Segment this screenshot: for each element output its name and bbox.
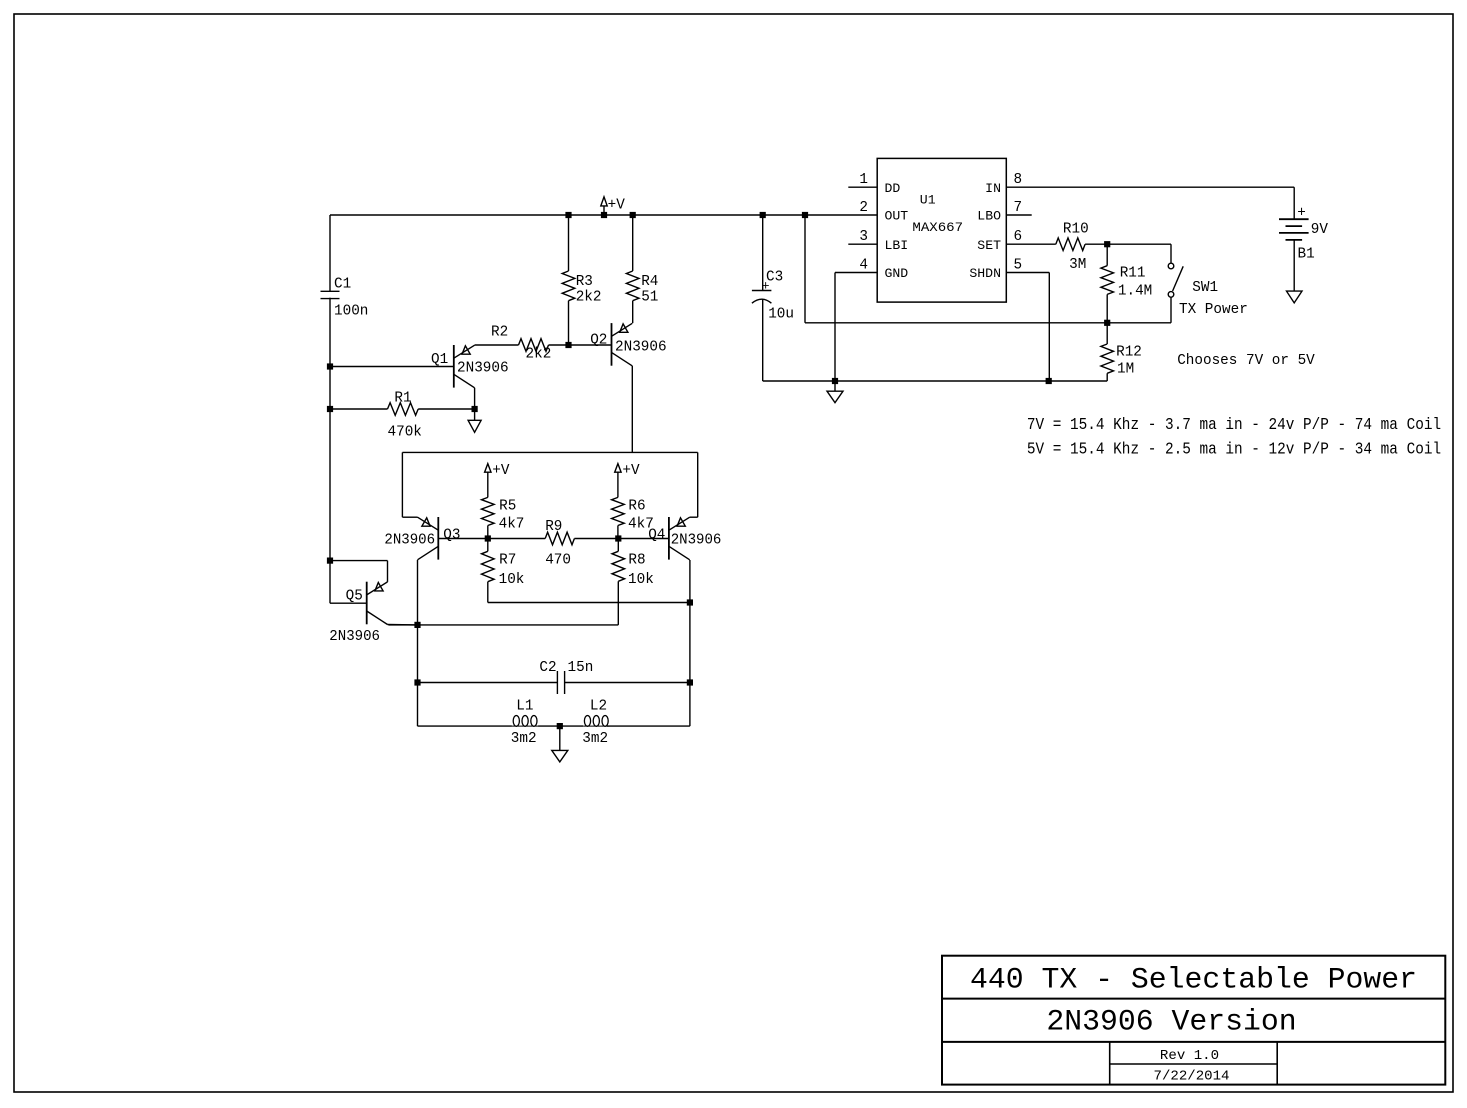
svg-text:Rev 1.0: Rev 1.0: [1160, 1049, 1219, 1064]
svg-text:2: 2: [859, 199, 868, 216]
svg-text:2N3906 Version: 2N3906 Version: [1046, 1005, 1296, 1039]
svg-text:Q2: Q2: [590, 331, 607, 348]
svg-text:+: +: [762, 278, 770, 293]
svg-text:5V = 15.4 Khz - 2.5 ma in - 12: 5V = 15.4 Khz - 2.5 ma in - 12v P/P - 34…: [1027, 440, 1441, 459]
svg-text:3m2: 3m2: [582, 730, 608, 747]
svg-text:DD: DD: [885, 181, 901, 196]
svg-text:2k2: 2k2: [576, 289, 602, 306]
svg-text:2N3906: 2N3906: [671, 532, 722, 549]
svg-text:R12: R12: [1116, 344, 1142, 361]
svg-text:C1: C1: [334, 276, 351, 293]
svg-text:1: 1: [859, 171, 868, 188]
svg-text:+V: +V: [622, 462, 639, 479]
svg-text:5: 5: [1014, 256, 1023, 273]
svg-text:4: 4: [859, 256, 868, 273]
svg-text:3M: 3M: [1069, 256, 1086, 273]
svg-text:7/22/2014: 7/22/2014: [1154, 1070, 1230, 1085]
svg-text:R2: R2: [491, 323, 508, 340]
svg-text:LBO: LBO: [977, 209, 1001, 224]
svg-text:B1: B1: [1298, 246, 1315, 263]
svg-text:IN: IN: [985, 181, 1001, 196]
svg-text:R11: R11: [1120, 265, 1146, 282]
svg-text:10k: 10k: [499, 571, 525, 588]
svg-text:R5: R5: [499, 498, 516, 515]
svg-text:R9: R9: [545, 518, 562, 535]
svg-text:R10: R10: [1063, 220, 1089, 237]
svg-text:440 TX - Selectable Power: 440 TX - Selectable Power: [970, 963, 1417, 997]
svg-text:LBI: LBI: [885, 238, 909, 253]
svg-text:470: 470: [545, 552, 571, 569]
svg-text:+: +: [1297, 205, 1306, 222]
svg-text:SHDN: SHDN: [969, 266, 1001, 281]
svg-text:3: 3: [859, 228, 868, 245]
svg-text:GND: GND: [885, 266, 909, 281]
svg-text:+V: +V: [608, 197, 625, 214]
svg-text:C2: C2: [539, 659, 556, 676]
svg-text:TX Power: TX Power: [1179, 301, 1248, 318]
svg-text:U1: U1: [920, 192, 936, 207]
svg-text:MAX667: MAX667: [912, 220, 963, 235]
svg-text:Q3: Q3: [443, 526, 460, 543]
svg-text:2N3906: 2N3906: [457, 360, 509, 377]
svg-text:L2: L2: [590, 698, 607, 715]
svg-text:51: 51: [641, 289, 658, 306]
svg-text:R8: R8: [628, 552, 645, 569]
svg-text:R1: R1: [394, 390, 411, 407]
svg-text:Q5: Q5: [346, 588, 363, 605]
svg-text:Q1: Q1: [431, 351, 448, 368]
svg-text:SET: SET: [977, 238, 1001, 253]
svg-text:2k2: 2k2: [526, 345, 552, 362]
svg-text:100n: 100n: [334, 303, 368, 320]
svg-text:SW1: SW1: [1192, 279, 1218, 296]
svg-text:9V: 9V: [1311, 221, 1328, 238]
svg-text:L1: L1: [516, 698, 533, 715]
svg-text:470k: 470k: [388, 424, 422, 441]
svg-text:1.4M: 1.4M: [1118, 282, 1152, 299]
svg-text:OUT: OUT: [885, 209, 909, 224]
svg-text:2N3906: 2N3906: [329, 628, 380, 645]
svg-text:3m2: 3m2: [511, 730, 537, 747]
svg-text:+V: +V: [492, 462, 509, 479]
svg-text:10k: 10k: [628, 571, 654, 588]
svg-text:15n: 15n: [568, 659, 594, 676]
svg-text:2N3906: 2N3906: [384, 532, 435, 549]
svg-text:R6: R6: [628, 498, 645, 515]
svg-text:7: 7: [1014, 199, 1023, 216]
svg-text:R3: R3: [576, 273, 593, 290]
svg-text:4k7: 4k7: [499, 516, 525, 533]
svg-text:Chooses 7V or 5V: Chooses 7V or 5V: [1177, 352, 1315, 369]
svg-text:2N3906: 2N3906: [615, 338, 667, 355]
svg-text:10u: 10u: [768, 306, 794, 323]
svg-text:7V = 15.4 Khz - 3.7 ma in - 24: 7V = 15.4 Khz - 3.7 ma in - 24v P/P - 74…: [1027, 416, 1441, 435]
svg-text:6: 6: [1014, 228, 1023, 245]
svg-text:4k7: 4k7: [628, 516, 654, 533]
svg-text:1M: 1M: [1117, 360, 1134, 377]
svg-text:R7: R7: [499, 552, 516, 569]
svg-text:8: 8: [1014, 171, 1023, 188]
svg-text:R4: R4: [641, 273, 658, 290]
